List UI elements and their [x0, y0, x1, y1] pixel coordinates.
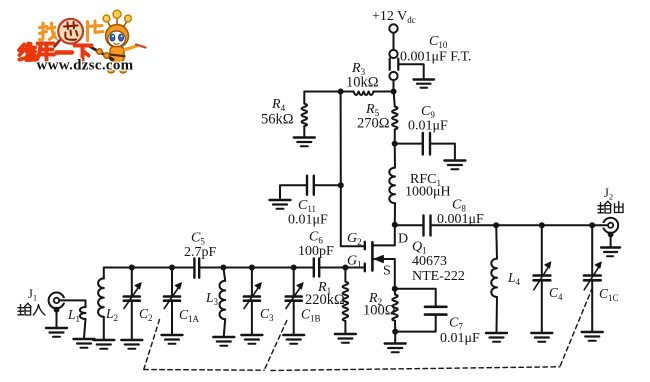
label 2.7pF — [184, 245, 217, 260]
label shu-ru (input) — [18, 303, 45, 315]
ground (J1) — [46, 328, 67, 337]
svg-text:J1: J1 — [28, 287, 37, 303]
transistor Q1 channel — [371, 242, 374, 270]
wire R5 to node — [394, 130, 396, 144]
label C8 — [452, 198, 466, 214]
label R2 — [368, 291, 382, 307]
wire to ground (R2) — [394, 332, 396, 343]
svg-text:L3: L3 — [205, 290, 219, 307]
label C4 — [549, 285, 563, 302]
label L1 — [67, 307, 80, 324]
label G1 — [347, 254, 362, 270]
svg-text:C1C: C1C — [599, 286, 619, 303]
node R1/G1 — [342, 265, 348, 271]
label NTE-222 — [412, 269, 465, 284]
svg-text:NTE-222: NTE-222 — [412, 269, 465, 284]
resistor R4 — [302, 104, 308, 127]
ground (C1C) — [582, 332, 603, 341]
label L3 — [205, 290, 219, 307]
inductor L4 — [491, 225, 497, 332]
label C1A — [179, 307, 200, 324]
label C5 — [191, 231, 205, 247]
ground (C9) — [444, 161, 465, 170]
label G2 — [347, 231, 362, 247]
label 100Ohm — [363, 303, 396, 319]
transistor Q1 gate-1 bar — [364, 264, 366, 272]
ground (L1) — [74, 339, 95, 348]
variable capacitor C1C — [584, 225, 601, 331]
node C1A — [169, 265, 175, 271]
label 0.01uF (C9) — [408, 119, 448, 134]
label 100pF — [298, 244, 334, 259]
variable capacitor C4 — [534, 225, 551, 332]
wire R2 to bottom node — [394, 321, 396, 332]
svg-text:0.001μF F.T.: 0.001μF F.T. — [400, 50, 471, 65]
label R5 — [365, 102, 380, 118]
wire C11 to ground — [280, 185, 307, 199]
ground (C11) — [270, 200, 291, 209]
wire J1 to ground — [56, 311, 58, 327]
wire C9 to ground — [430, 144, 455, 160]
ground (L4) — [486, 333, 507, 342]
node C3 — [249, 265, 255, 271]
svg-text:C3: C3 — [260, 306, 274, 323]
inductor L1 — [80, 307, 86, 319]
label Q1 — [412, 240, 427, 256]
wire output bus — [431, 224, 603, 226]
capacitor C6 (series) — [314, 259, 319, 277]
wire J2 to ground — [610, 236, 612, 247]
variable capacitor C2 — [124, 268, 142, 340]
+12V supply terminal — [389, 24, 397, 32]
label R3 — [351, 61, 366, 77]
resistor R1 — [343, 268, 349, 334]
label C10 — [429, 34, 448, 50]
logo mascot robot — [88, 10, 146, 73]
logo text weikuyixia red — [19, 44, 92, 62]
node at +12V rail — [391, 89, 397, 95]
label 0.01uF (C7) — [440, 331, 480, 346]
wire input bus left segment — [104, 268, 194, 279]
ground (C4) — [531, 333, 552, 342]
label 56kOhm — [261, 112, 294, 128]
svg-text:C4: C4 — [549, 285, 563, 302]
resistor R5 — [392, 107, 398, 130]
label shu-chu (output) — [598, 201, 623, 213]
svg-text:0.01μF: 0.01μF — [440, 331, 480, 346]
node L4 — [493, 222, 499, 228]
capacitor C8 — [424, 216, 431, 236]
svg-text:56kΩ: 56kΩ — [261, 112, 294, 128]
wire C7 bottom — [395, 316, 436, 332]
label 0.001uF F.T. — [400, 50, 471, 65]
label 0.01uF (C11) — [288, 213, 328, 228]
svg-text:C2: C2 — [139, 306, 153, 323]
svg-text:S: S — [383, 264, 391, 279]
wire supply terminal to C10 — [393, 33, 395, 50]
svg-text:C10: C10 — [429, 34, 448, 50]
wire node to R5 — [394, 92, 395, 107]
label 0.001uF (C8) — [437, 212, 484, 227]
svg-text:100Ω: 100Ω — [363, 303, 396, 319]
inductor L3 — [220, 268, 226, 337]
svg-text:G2: G2 — [347, 231, 362, 247]
node C11 — [338, 182, 344, 188]
label J1 — [28, 287, 37, 303]
svg-text:www.dzsc.com: www.dzsc.com — [37, 58, 134, 74]
svg-text:0.01μF: 0.01μF — [288, 213, 328, 228]
svg-text:C1A: C1A — [179, 307, 200, 324]
gang dashed link C1C diagonal — [560, 288, 593, 367]
capacitor C7 — [425, 307, 446, 315]
capacitor C9 — [423, 133, 430, 155]
svg-text:0.01μF: 0.01μF — [408, 119, 448, 134]
gang dashed link horizontal 1 — [144, 369, 264, 372]
svg-text:100pF: 100pF — [298, 244, 334, 259]
label J2 — [604, 186, 613, 202]
label RFC1 — [410, 172, 441, 188]
gang dashed link C1B diagonal — [264, 321, 287, 371]
wire G2 (C11 node down and right to gate 2) — [341, 185, 364, 246]
label C6 — [309, 230, 323, 246]
variable capacitor C1A — [164, 268, 182, 335]
svg-text:+12 Vdc: +12 Vdc — [372, 9, 416, 25]
label 10kOhm — [346, 75, 379, 91]
resistor R3 — [354, 92, 374, 96]
resistor R2 — [392, 289, 398, 321]
svg-text:10kΩ: 10kΩ — [346, 75, 379, 91]
gang dashed link C1A diagonal — [144, 320, 160, 370]
label C3 — [260, 306, 274, 323]
wire bus C5 to C6 — [200, 267, 314, 269]
connector J2 — [600, 218, 618, 238]
svg-text:C1B: C1B — [301, 307, 321, 324]
inductor RFC1 — [389, 168, 395, 204]
ground (R1) — [335, 334, 356, 343]
wire node to R4 — [304, 92, 340, 104]
capacitor C10 feed-through — [389, 50, 423, 80]
svg-text:D: D — [398, 232, 408, 247]
ground (C1B) — [283, 335, 304, 344]
transistor Q1 gate-2 bar — [364, 242, 366, 250]
label D — [398, 232, 408, 247]
wire C10 to node — [393, 80, 395, 91]
capacitor C5 (series) — [194, 259, 199, 278]
svg-text:L1: L1 — [67, 307, 80, 324]
node L3 — [220, 265, 226, 271]
svg-text:270Ω: 270Ω — [357, 116, 390, 132]
label C1C — [599, 286, 619, 303]
node R3 left — [338, 89, 344, 95]
label R1 — [317, 280, 331, 296]
label C2 — [139, 306, 153, 323]
label 1000uH — [405, 185, 451, 200]
label C7 — [449, 316, 463, 332]
ground (C10) — [414, 80, 435, 88]
wire C11 right plate to node — [314, 184, 341, 186]
wire node to R3 — [374, 91, 394, 93]
label S — [383, 264, 391, 279]
wire R4 to ground — [303, 126, 305, 136]
wire R3 to left node — [341, 91, 354, 93]
+12 Vdc label — [372, 9, 416, 25]
node C4 — [539, 222, 545, 228]
label L4 — [507, 270, 521, 287]
svg-text:1000μH: 1000μH — [405, 185, 451, 200]
capacitor C11 — [307, 176, 314, 195]
svg-text:L4: L4 — [507, 270, 521, 287]
logo magnifier glass with xin char — [55, 18, 85, 47]
label 40673 — [412, 254, 447, 269]
ground (J2) — [601, 248, 620, 257]
svg-text:J2: J2 — [604, 186, 613, 202]
wire node to RFC1 — [394, 144, 396, 168]
wire RFC1 to drain node — [394, 203, 396, 224]
label L2 — [105, 306, 118, 323]
label R4 — [271, 97, 286, 113]
node C1B — [291, 265, 297, 271]
ground (C1A) — [162, 335, 183, 344]
variable capacitor C1B — [286, 268, 304, 335]
svg-text:40673: 40673 — [412, 254, 447, 269]
connector J1 — [49, 293, 68, 313]
wire node to C9 — [395, 143, 423, 145]
node R2 bottom — [392, 329, 398, 335]
gang dashed link horizontal 2 — [271, 367, 560, 371]
svg-text:220kΩ: 220kΩ — [305, 292, 345, 308]
wire C6 to G1 node — [320, 267, 365, 269]
ground (L3) — [213, 337, 234, 346]
svg-text:C7: C7 — [449, 316, 463, 332]
label 270Ohm — [357, 116, 390, 132]
wire drain node to C8 — [395, 224, 423, 226]
variable capacitor C3 — [244, 268, 262, 335]
transistor Q1 source lead with arrow — [372, 255, 394, 288]
wire C7 top — [395, 289, 436, 306]
wire L1 to ground — [84, 319, 86, 338]
ground (L2) — [93, 340, 114, 349]
logo text www.dzsc.com — [37, 58, 134, 74]
node R5/C9/RFC1 — [392, 141, 398, 147]
inductor L2 — [98, 278, 104, 316]
node source/R2 — [392, 286, 398, 292]
node C2 — [129, 265, 135, 271]
wire C11 column (node R3-left down to G2 corner) — [340, 92, 342, 186]
label C11 — [298, 198, 316, 214]
ground (R2) — [385, 344, 406, 353]
logo char pian (chip) orange — [88, 21, 104, 41]
transistor Q1 drain lead — [372, 225, 394, 246]
svg-text:2.7pF: 2.7pF — [184, 245, 217, 260]
logo char zhao (find) orange — [40, 23, 59, 40]
node drain — [392, 222, 398, 228]
wire J1 to L1 — [59, 300, 85, 307]
ground (C3) — [241, 335, 262, 344]
node C1C — [589, 222, 595, 228]
ground (C2) — [121, 340, 142, 349]
label C1B — [301, 307, 321, 324]
label C9 — [421, 104, 435, 120]
ground (R4) — [294, 138, 315, 147]
wire L2 to ground — [103, 317, 105, 339]
label 220kOhm — [305, 292, 345, 308]
svg-text:L2: L2 — [105, 306, 118, 323]
